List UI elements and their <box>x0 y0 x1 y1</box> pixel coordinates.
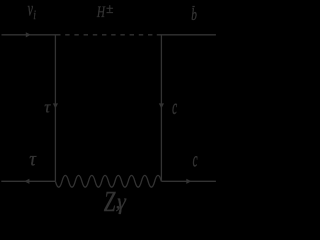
wire: right vertical c propagator <box>160 35 162 182</box>
svg-text:γ: γ <box>117 188 127 214</box>
wire: outgoing c line (bottom right) <box>161 180 216 182</box>
svg-text:b: b <box>191 6 197 25</box>
svg-text:c: c <box>193 147 198 171</box>
svg-text:ν: ν <box>28 0 34 20</box>
wire: charged Higgs dashed propagator H± <box>65 34 152 36</box>
svg-text:τ: τ <box>29 149 37 171</box>
wire: incoming b quark line (top right) <box>157 34 216 36</box>
arrowhead: neutrino arrow pointing right <box>26 32 31 37</box>
svg-text:τ: τ <box>44 97 51 116</box>
arrowhead: bottom tau arrow pointing left <box>24 179 29 184</box>
arrowhead: bottom c arrow pointing right <box>186 179 191 184</box>
svg-text:Z: Z <box>104 187 116 218</box>
wire: outgoing tau line (bottom left) <box>1 180 55 182</box>
wire: left vertical tau propagator <box>54 35 56 182</box>
label: overline of b-bar <box>192 6 194 7</box>
svg-text:i: i <box>33 9 36 23</box>
svg-text:±: ± <box>106 1 113 16</box>
wire: incoming neutrino line (top left) <box>2 34 61 36</box>
boson: Z/gamma wavy propagator <box>55 175 161 187</box>
arrowhead: right c arrow pointing down <box>159 103 164 108</box>
svg-text:c: c <box>172 95 177 119</box>
svg-text:H: H <box>96 3 106 20</box>
arrowhead: left tau arrow pointing down <box>53 103 58 108</box>
